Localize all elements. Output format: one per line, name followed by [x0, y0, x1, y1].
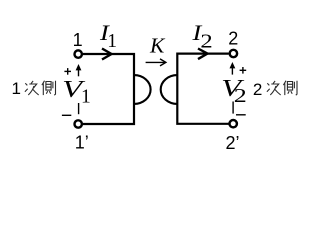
current arrowhead I1: [102, 49, 112, 60]
kanji 側 (primary): [42, 81, 56, 96]
svg-text:1: 1: [107, 31, 117, 52]
kanji 側 (secondary): [283, 81, 297, 96]
voltage arrow V1 (tip and upper shaft): [76, 64, 82, 114]
current arrowhead I2: [198, 49, 208, 60]
wire: secondary loop (terminal 2 to 2'): [177, 54, 228, 124]
svg-text:2: 2: [253, 80, 262, 99]
svg-text:1’: 1’: [75, 132, 89, 152]
svg-text:2: 2: [234, 86, 247, 107]
terminal 2': [230, 120, 237, 127]
plus sign (V1): [64, 68, 71, 75]
svg-text:2: 2: [228, 29, 238, 49]
svg-text:K: K: [149, 33, 166, 57]
terminal 1': [75, 120, 82, 127]
voltage arrow V2 (tip and upper shaft): [230, 62, 236, 114]
kanji 次 (primary): [25, 81, 39, 95]
label 1次側 (primary side): [11, 79, 55, 98]
coupling arrow (K direction): [146, 59, 166, 66]
plus sign (V2): [240, 67, 247, 74]
svg-text:2’: 2’: [226, 133, 240, 153]
coil L2 (secondary winding): [161, 75, 178, 104]
minus sign (V2): [236, 114, 246, 116]
kanji 次 (secondary): [267, 81, 281, 95]
svg-text:1: 1: [81, 87, 91, 108]
svg-text:2: 2: [200, 32, 212, 53]
terminal 1: [75, 50, 82, 57]
voltage arrow V2 (lower shaft): [232, 102, 234, 114]
svg-text:1: 1: [11, 79, 20, 98]
label 2次側 (secondary side): [253, 80, 297, 99]
coil L1 (primary winding): [134, 75, 151, 104]
wire: primary loop (terminal 1 to 1'): [83, 54, 134, 124]
minus sign (V1): [62, 114, 71, 116]
voltage arrow V1 (lower shaft): [78, 103, 80, 114]
svg-text:1: 1: [73, 30, 83, 50]
terminal 2: [230, 50, 237, 57]
